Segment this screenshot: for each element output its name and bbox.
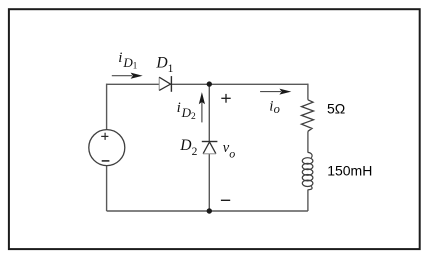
wire top right segment	[171, 83, 308, 85]
wire right lower	[307, 190, 309, 212]
source plus	[101, 133, 108, 140]
node plus	[221, 94, 230, 103]
source V1 circle	[89, 130, 125, 166]
svg-text:D1: D1	[155, 54, 173, 75]
svg-text:iD1: iD1	[118, 50, 137, 70]
wire bottom	[107, 210, 308, 212]
source minus	[102, 160, 110, 162]
svg-text:5Ω: 5Ω	[327, 101, 345, 117]
wire left upper	[106, 84, 108, 130]
junction dot bottom	[207, 208, 212, 213]
wire left lower	[106, 165, 108, 211]
resistor R 5ohm	[302, 100, 314, 132]
current arrow iD1	[112, 73, 143, 79]
svg-text:io: io	[269, 99, 280, 116]
current arrow io	[260, 89, 291, 95]
node minus	[221, 199, 230, 201]
wire middle lower	[208, 154, 210, 211]
diode D2	[202, 142, 218, 154]
svg-text:vo: vo	[223, 140, 235, 161]
junction dot top	[207, 81, 212, 86]
wire top left segment	[107, 83, 160, 85]
wire right upper	[307, 84, 309, 100]
inductor L 150mH	[302, 152, 313, 189]
wire right middle	[307, 131, 309, 152]
diode D1	[159, 76, 171, 92]
current arrow iD2	[199, 92, 205, 122]
wire middle upper	[208, 84, 210, 141]
svg-text:iD2: iD2	[177, 100, 196, 122]
svg-text:D2: D2	[179, 137, 197, 158]
svg-text:150mH: 150mH	[327, 162, 372, 178]
